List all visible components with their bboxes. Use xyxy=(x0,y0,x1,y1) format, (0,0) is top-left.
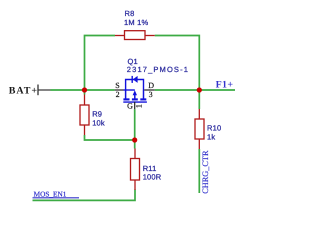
resistor R10 xyxy=(195,109,204,149)
body tie horizontal xyxy=(124,89,135,91)
svg-text:R8: R8 xyxy=(125,9,135,18)
body diode loop xyxy=(126,80,144,91)
resistor R8 xyxy=(115,31,155,40)
pin G line xyxy=(134,102,136,110)
body stem xyxy=(134,95,136,99)
svg-text:F1+: F1+ xyxy=(216,80,234,91)
body arrow xyxy=(133,90,137,95)
svg-text:G: G xyxy=(127,102,133,111)
port BAT+ pin lead xyxy=(38,89,51,91)
junction node gate at R9/R11 xyxy=(132,137,137,142)
junction node BAT+ at R9 xyxy=(82,87,87,92)
port BAT+ pin tick xyxy=(37,85,39,96)
wire Q1 gate down through node to R11 xyxy=(134,109,136,148)
wire BAT+ to Q1 source (net BAT+) xyxy=(51,89,115,91)
channel segment source xyxy=(123,98,129,100)
pin S line xyxy=(115,89,124,91)
svg-text:BAT+: BAT+ xyxy=(9,85,38,96)
net label MOS_EN1 underline xyxy=(33,197,80,199)
svg-text:1: 1 xyxy=(135,104,144,108)
resistor R11 xyxy=(131,149,140,191)
diode cathode bar xyxy=(131,76,133,83)
wire R11 bottom to MOS_EN1 xyxy=(33,190,136,201)
svg-text:100R: 100R xyxy=(143,172,162,181)
channel segment body xyxy=(132,98,138,100)
resistor R9 xyxy=(80,95,89,136)
channel segment drain xyxy=(140,98,146,100)
svg-text:1M 1%: 1M 1% xyxy=(124,18,148,27)
source stem xyxy=(125,90,127,99)
svg-text:2317_PMOS-1: 2317_PMOS-1 xyxy=(127,65,189,74)
svg-text:R9: R9 xyxy=(92,109,102,118)
gate bar xyxy=(123,101,147,103)
drain stem xyxy=(143,90,145,99)
wire R8 right to right vertical down to R10 xyxy=(155,36,200,110)
svg-text:1k: 1k xyxy=(207,132,215,141)
wire Q1 drain to F1+ xyxy=(155,89,235,91)
svg-text:3: 3 xyxy=(149,90,153,99)
transistor Q1 PMOS symbol xyxy=(123,76,147,102)
pin D line xyxy=(144,89,155,91)
wire R10 bottom to CHRG_CTR xyxy=(198,149,200,193)
svg-text:CHRG_CTR: CHRG_CTR xyxy=(201,150,210,194)
wire R9 bottom to gate node xyxy=(85,135,135,140)
diode triangle xyxy=(133,76,138,83)
svg-text:MOS_EN1: MOS_EN1 xyxy=(34,189,67,198)
wire left vertical BAT+ up to R8 xyxy=(85,36,116,95)
junction node F1+ at R10 xyxy=(197,87,202,92)
svg-text:10k: 10k xyxy=(92,119,105,128)
svg-text:R10: R10 xyxy=(207,124,221,133)
svg-text:2: 2 xyxy=(116,90,120,99)
